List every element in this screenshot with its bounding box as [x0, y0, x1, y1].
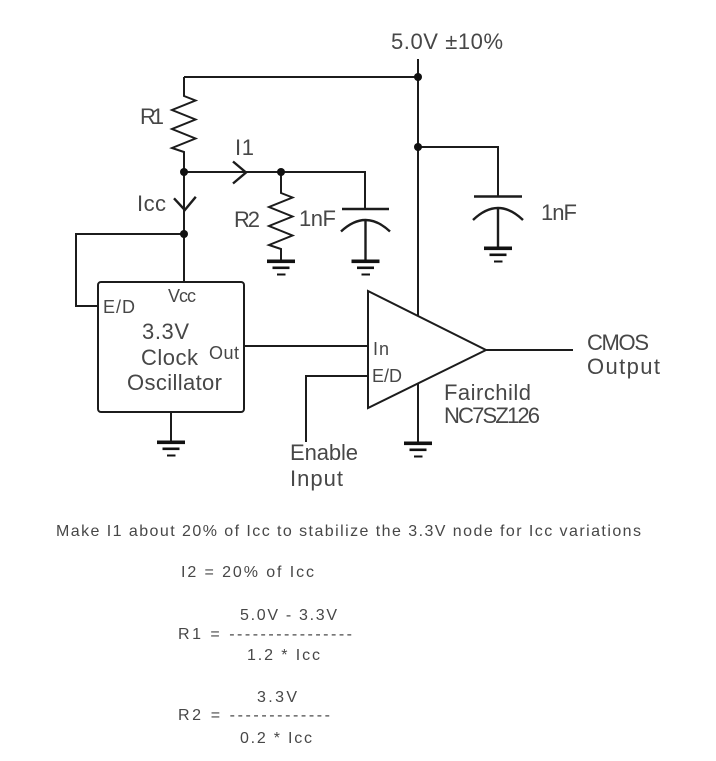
- ground under C2: [484, 247, 512, 263]
- capacitor C1 left 1nF: [341, 209, 390, 261]
- ground under triangle: [404, 442, 432, 458]
- svg-text:R2 = -------------: R2 = -------------: [178, 707, 330, 724]
- wire 5V vertical rail: [417, 59, 419, 316]
- wire box ground stem: [170, 412, 172, 442]
- wire left vertical (Icc): [183, 172, 185, 282]
- svg-text:Clock: Clock: [141, 345, 199, 370]
- svg-text:Out: Out: [209, 343, 239, 363]
- svg-text:3.3V: 3.3V: [142, 319, 189, 344]
- svg-text:E/D: E/D: [103, 297, 135, 317]
- svg-text:Fairchild: Fairchild: [444, 380, 531, 405]
- node dot Icc: [180, 230, 188, 238]
- op-amp U2 buffer triangle: [368, 291, 486, 408]
- ground under box: [157, 441, 185, 457]
- resistor R1: [172, 77, 196, 172]
- svg-text:R1: R1: [140, 104, 164, 129]
- svg-text:In: In: [373, 339, 389, 359]
- wire R2 node to left cap: [281, 172, 365, 208]
- resistor R2: [269, 172, 293, 261]
- svg-text:1nF: 1nF: [299, 206, 336, 231]
- svg-text:1nF: 1nF: [541, 200, 577, 225]
- oscillator box U1: [98, 282, 244, 412]
- svg-text:Icc: Icc: [137, 191, 166, 216]
- wire CMOS output: [486, 349, 573, 351]
- svg-text:I1: I1: [235, 135, 254, 160]
- svg-text:5.0V ±10%: 5.0V ±10%: [391, 29, 503, 54]
- arrow I1: [233, 162, 246, 184]
- wire triangle ground stem: [417, 383, 419, 443]
- ground under C1: [352, 260, 380, 276]
- svg-text:E/D: E/D: [372, 366, 402, 386]
- node dot rail top: [414, 73, 422, 81]
- svg-text:R1 = ----------------: R1 = ----------------: [178, 626, 352, 643]
- svg-text:3.3V: 3.3V: [257, 689, 297, 706]
- ground under R2: [267, 260, 295, 276]
- svg-text:Vcc: Vcc: [168, 286, 196, 306]
- wire Out to In: [244, 345, 368, 347]
- wire I1 horizontal: [184, 171, 281, 173]
- svg-text:Input: Input: [290, 466, 343, 491]
- svg-text:0.2 * Icc: 0.2 * Icc: [240, 730, 312, 747]
- svg-text:Enable: Enable: [290, 440, 358, 465]
- svg-text:NC7SZ126: NC7SZ126: [444, 403, 540, 428]
- node dot R1 bottom: [180, 168, 188, 176]
- wire top horizontal rail: [184, 76, 418, 78]
- svg-text:Make I1 about 20% of Icc to st: Make I1 about 20% of Icc to stabilize th…: [56, 523, 641, 540]
- wire enable input: [306, 376, 368, 442]
- wire E/D feedback: [76, 234, 184, 306]
- svg-text:I2 = 20% of Icc: I2 = 20% of Icc: [181, 564, 314, 581]
- capacitor C2 right 1nF: [473, 197, 523, 249]
- svg-text:1.2 * Icc: 1.2 * Icc: [247, 647, 320, 664]
- node dot R2 top: [277, 168, 285, 176]
- svg-text:Oscillator: Oscillator: [127, 370, 222, 395]
- svg-text:CMOS: CMOS: [587, 330, 649, 355]
- svg-text:Output: Output: [587, 354, 660, 379]
- node dot rail cap: [414, 143, 422, 151]
- svg-text:5.0V - 3.3V: 5.0V - 3.3V: [240, 607, 337, 624]
- svg-text:R2: R2: [234, 207, 260, 232]
- wire rail to right cap: [418, 147, 498, 196]
- arrow Icc: [174, 197, 196, 210]
